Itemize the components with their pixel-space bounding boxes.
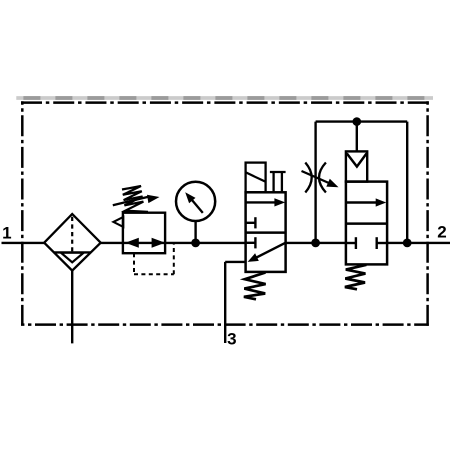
svg-text:2: 2 bbox=[437, 222, 446, 241]
position 2 blocked port right bbox=[377, 242, 387, 244]
wire: top bypass line bbox=[316, 120, 408, 122]
enclosure dash-dot border left bbox=[21, 101, 24, 324]
soft-start valve pilot check bbox=[346, 151, 367, 181]
adjustable flow restrictor bbox=[302, 163, 339, 193]
junction dot at gauge tap bbox=[191, 239, 200, 248]
enclosure top shading band (gray) bbox=[16, 96, 433, 100]
position 2 blocked port left bbox=[346, 242, 356, 244]
pressure regulator bbox=[113, 186, 165, 253]
regulator relief vent arrowhead bbox=[113, 217, 123, 227]
wire: check valve drop bbox=[356, 122, 358, 152]
enclosure dash-dot border bottom bbox=[21, 323, 429, 326]
position 1 flow arrow bbox=[346, 201, 379, 203]
svg-text:1: 1 bbox=[2, 223, 11, 242]
regulator adjustment spring bbox=[122, 186, 148, 212]
junction dot right on main line bbox=[403, 239, 412, 248]
wire: filter condensate drain bbox=[71, 271, 73, 344]
enclosure dash-dot border top bbox=[21, 101, 429, 104]
wire: filter outlet through regulator to valve inlet bbox=[100, 242, 245, 244]
wire: port 1 to filter inlet bbox=[2, 242, 45, 244]
wire: soft-start valve outlet to port 2 bbox=[387, 242, 450, 244]
wire: branch riser left (to throttle) bbox=[314, 122, 316, 243]
pressure gauge bbox=[176, 182, 215, 221]
filter with water separator bbox=[44, 214, 100, 271]
position 1 flow arrow bbox=[246, 201, 278, 203]
svg-text:3: 3 bbox=[227, 329, 236, 348]
junction dot left on main line bbox=[311, 239, 320, 248]
wire: branch riser right bbox=[406, 122, 408, 243]
wire: valve exhaust to port 3 bbox=[225, 261, 245, 263]
3/2-way valve manual override bbox=[270, 172, 286, 192]
wire: 3/2 valve outlet to soft-start valve inlet bbox=[285, 242, 346, 244]
3/2-way valve solenoid bbox=[246, 163, 266, 193]
3/2-way valve body bbox=[246, 192, 286, 272]
enclosure dash-dot border right bbox=[426, 101, 429, 325]
wire: gauge stub bbox=[194, 221, 196, 243]
position 1 blocked port bbox=[246, 222, 255, 224]
position 2 exhaust path bbox=[253, 243, 286, 260]
regulator adjustment arrow bbox=[113, 197, 148, 205]
position 2 blocked port bbox=[246, 242, 255, 244]
soft-start valve body bbox=[346, 182, 387, 265]
junction dot on top line bbox=[353, 117, 362, 126]
soft-start valve return spring bbox=[345, 265, 367, 290]
3/2-way valve return spring bbox=[244, 273, 266, 300]
regulator pilot feedback dashed line bbox=[134, 244, 174, 274]
